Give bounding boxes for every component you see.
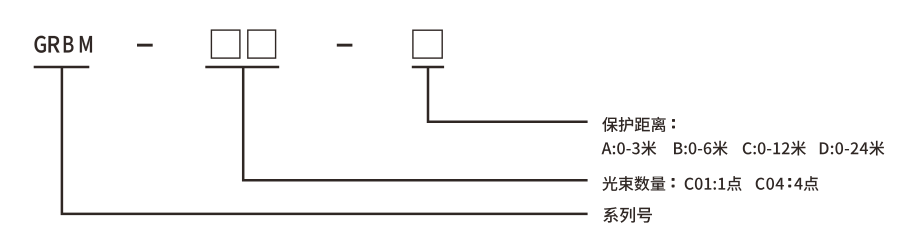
option box 3 (protection distance code) [413, 30, 442, 58]
leader line: boxes 1-2 to 光束数量 label [243, 67, 587, 180]
label: beam option C01:1点 [685, 176, 742, 191]
label: protection distance heading [602, 117, 666, 132]
label: distance options line [602, 141, 885, 156]
option box 2 (beam count digit 2) [248, 30, 276, 58]
series underline bar (under GRBM) [34, 66, 90, 69]
label: beam option 4点 [794, 176, 818, 191]
distance underline bar (under box 3) [412, 66, 444, 69]
leader line: box3 to 保护距离 label [428, 67, 588, 122]
separator dash 1 [137, 44, 153, 47]
fullwidth colon after 保护距离 [672, 119, 675, 122]
label: beam count heading 光束数量 [602, 176, 665, 191]
beam count underline bar (under boxes 1-2) [205, 66, 279, 69]
model prefix text GRBM [35, 36, 92, 53]
separator dash 2 [337, 44, 353, 47]
fullwidth colon after C04 [788, 178, 791, 181]
fullwidth colon after 光束数量 [672, 178, 675, 181]
leader line: GRBM to 系列号 label [62, 67, 588, 214]
label: series name 系列号 [603, 207, 652, 223]
option box 1 (beam count digit 1) [211, 30, 240, 58]
label: beam option C04 [756, 178, 784, 190]
